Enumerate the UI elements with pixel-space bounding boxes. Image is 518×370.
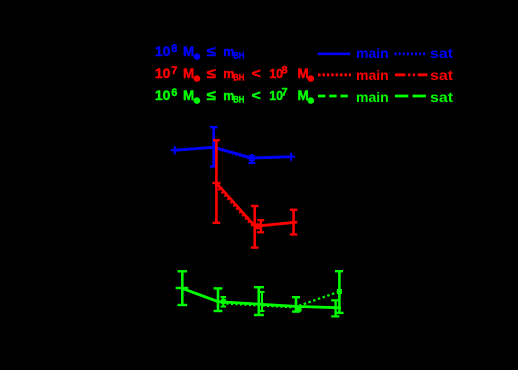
red point 1 tall error bar bbox=[213, 140, 221, 223]
blue point 4 plus marker bbox=[287, 153, 295, 161]
legend row 1 blue sat sample (dotted) bbox=[395, 52, 428, 55]
svg-text:main: main bbox=[356, 89, 389, 105]
blue point 2 error bar bbox=[210, 127, 217, 166]
svg-text:7: 7 bbox=[282, 87, 288, 99]
red point 2 error bar A bbox=[251, 206, 259, 248]
red main solid curve bbox=[216, 183, 296, 226]
legend row 2 red sat sample (dash-dot-dot) bbox=[395, 73, 428, 76]
legend row 1 blue main sample (solid) bbox=[318, 52, 350, 55]
svg-text:M: M bbox=[298, 88, 309, 103]
green point 5 main error bar bbox=[331, 300, 339, 316]
svg-text:sat: sat bbox=[430, 89, 453, 105]
green point 2 sat error bar and square marker bbox=[221, 297, 226, 307]
svg-text:≤: ≤ bbox=[207, 43, 217, 59]
legend row 2 red label: 10^7 Msun <= mBH < 10^8 Msun bbox=[155, 65, 314, 83]
svg-text:BH: BH bbox=[233, 51, 244, 61]
green point 1 marker and error bar bbox=[176, 271, 189, 305]
svg-text:M: M bbox=[298, 66, 309, 81]
red point 2 sat error bar B bbox=[256, 220, 264, 232]
svg-text:10: 10 bbox=[155, 87, 171, 103]
svg-text:BH: BH bbox=[233, 73, 244, 83]
svg-text:<: < bbox=[252, 87, 261, 103]
svg-text:sat: sat bbox=[430, 45, 453, 61]
svg-text:7: 7 bbox=[171, 65, 177, 77]
svg-text:M: M bbox=[183, 66, 194, 81]
blue sat dotted segment bbox=[216, 149, 252, 160]
svg-text:≤: ≤ bbox=[207, 65, 217, 81]
green point 3 sat bar bbox=[260, 292, 265, 311]
green point 4 error bar bbox=[292, 297, 302, 311]
svg-text:6: 6 bbox=[171, 87, 177, 99]
green sat dotted companion under main bbox=[222, 304, 294, 308]
red dotted companion (main dotted) bbox=[216, 185, 254, 227]
svg-text:main: main bbox=[356, 45, 389, 61]
legend row 2 red main sample (dotted) bbox=[318, 73, 351, 76]
svg-text:BH: BH bbox=[233, 95, 244, 105]
legend row 3 green label: 10^6 Msun <= mBH < 10^7 Msun bbox=[155, 87, 314, 105]
svg-text:≤: ≤ bbox=[207, 87, 217, 103]
legend row 3 green sat sample (long dash) bbox=[395, 95, 428, 98]
svg-text:8: 8 bbox=[282, 65, 288, 77]
legend row 3 green main sample (dashed) bbox=[318, 95, 348, 98]
green point 2 error bar bbox=[214, 288, 223, 311]
svg-text:10: 10 bbox=[155, 43, 171, 59]
blue point 3 marker and error bar bbox=[249, 154, 256, 163]
svg-text:10: 10 bbox=[155, 65, 171, 81]
blue point 1 plus marker bbox=[171, 146, 179, 154]
green sat dotted diverging segment bbox=[299, 292, 339, 306]
svg-text:sat: sat bbox=[430, 67, 453, 83]
legend row 1 blue label: 10^8 Msun <= mBH bbox=[155, 43, 245, 61]
green point 3 error bar bbox=[254, 287, 264, 315]
green point 5 sat tall error bar bbox=[335, 271, 344, 313]
blue main curve bbox=[175, 147, 291, 158]
svg-text:8: 8 bbox=[171, 43, 177, 55]
red point 3 error bar bbox=[290, 210, 297, 235]
svg-text:<: < bbox=[252, 65, 261, 81]
green main curve bbox=[182, 288, 341, 308]
red point 1 plus marker bbox=[212, 182, 220, 184]
svg-text:M: M bbox=[183, 44, 194, 59]
svg-text:main: main bbox=[356, 67, 389, 83]
svg-text:M: M bbox=[183, 88, 194, 103]
